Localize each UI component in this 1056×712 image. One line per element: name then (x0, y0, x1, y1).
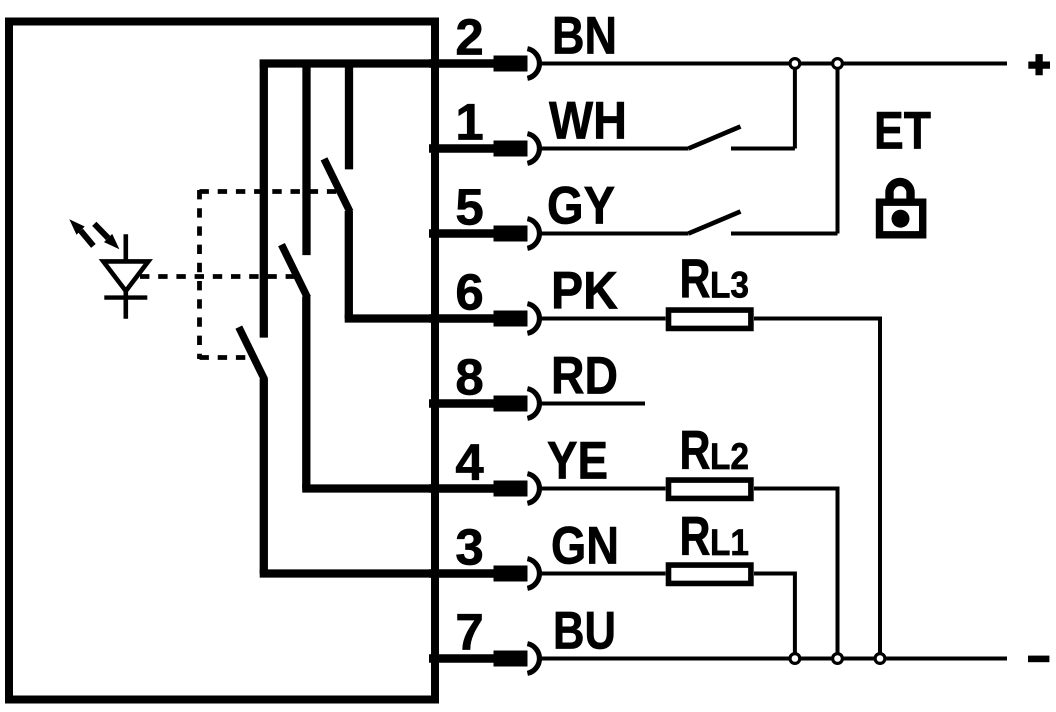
internal bus vertical C (345, 60, 353, 170)
resistor RL2 body (669, 480, 751, 498)
pin 8 plug (494, 396, 528, 412)
internal PK line (345, 314, 431, 322)
svg-text:ET: ET (874, 102, 931, 161)
svg-text:8: 8 (455, 349, 483, 406)
svg-text:3: 3 (455, 519, 483, 576)
svg-text:WH: WH (549, 92, 627, 151)
pin 3 plug (494, 566, 528, 582)
pin 1 plug (494, 141, 528, 157)
pin 4 plug (494, 481, 528, 497)
switch S3 blade (239, 327, 265, 380)
node on BN at GY branch (833, 59, 843, 69)
svg-text:L1: L1 (710, 522, 749, 563)
wire RD line (541, 402, 645, 406)
resistor RL1 body (669, 565, 751, 583)
switch ET2 blade (689, 212, 741, 234)
pin 6 plug (494, 311, 528, 327)
switch S3 lower wire (260, 379, 268, 574)
pin 4 stub (429, 484, 494, 493)
svg-text:BU: BU (553, 602, 616, 661)
dashed link horizontal to switch S3 (200, 355, 251, 360)
LED arrow out (up-left) (69, 219, 93, 246)
pin 6 stub (429, 314, 494, 323)
node on BU at RL3 (875, 654, 885, 664)
wire YE to resistor (541, 487, 666, 491)
switch S1 blade (324, 159, 350, 212)
svg-text:6: 6 (455, 264, 483, 321)
svg-text:7: 7 (455, 604, 483, 661)
svg-text:RD: RD (551, 347, 618, 406)
pin 7 plug (494, 651, 528, 667)
wire vertical WH to BN (793, 64, 797, 149)
pin 5 socket (527, 219, 539, 249)
wire BN line (541, 62, 1007, 66)
wire PK to resistor (541, 317, 666, 321)
switch S2 lower wire (302, 297, 310, 489)
LED D1 cathode bar (104, 295, 147, 299)
internal bus vertical A (260, 60, 268, 338)
pin 6 socket (527, 304, 539, 334)
plus terminal (1028, 54, 1050, 75)
pin 3 stub (429, 569, 494, 578)
dashed link vertical (197, 190, 202, 359)
pin 4 socket (527, 474, 539, 504)
wire GY line left (541, 232, 689, 236)
svg-text:YE: YE (547, 432, 608, 491)
pin 2 plug (494, 56, 528, 72)
wire GN to resistor (541, 572, 666, 576)
switch S1 lower wire (345, 211, 353, 319)
svg-text:1: 1 (455, 94, 483, 151)
internal GN line (260, 569, 431, 577)
svg-text:R: R (680, 249, 711, 310)
pin 1 socket (527, 134, 539, 164)
pin 8 stub (429, 399, 494, 408)
lock icon shackle (890, 182, 911, 200)
LED D1 triangle (103, 261, 148, 291)
wire GY line right (731, 232, 838, 236)
lock icon body (880, 202, 923, 235)
switch S2 blade (282, 245, 308, 298)
LED D1 photodiode lead (124, 234, 129, 319)
wire WH line left (541, 147, 689, 151)
LED arrow in (down-right) (94, 224, 119, 250)
pin 7 stub (429, 654, 494, 663)
wire vertical GY to BN (836, 64, 840, 234)
pin 5 stub (429, 229, 494, 238)
sensor body box (9, 22, 435, 700)
pin 2 socket (527, 49, 539, 79)
pin 1 stub (429, 144, 494, 153)
node on BU at RL1 (790, 654, 800, 664)
svg-text:4: 4 (455, 434, 484, 491)
wire BU line (541, 657, 1007, 661)
pin 7 socket (527, 644, 539, 674)
internal YE line (302, 484, 431, 492)
svg-text:5: 5 (455, 179, 483, 236)
wire RL2 to corner (754, 489, 838, 659)
svg-text:PK: PK (551, 262, 618, 321)
node on BN at WH branch (790, 59, 800, 69)
minus terminal (1028, 656, 1049, 663)
resistor RL3 body (669, 310, 751, 328)
internal BN bus line (260, 59, 431, 67)
svg-text:GY: GY (547, 177, 615, 236)
node on BU at RL2 (833, 654, 843, 664)
pin 3 socket (527, 559, 539, 589)
svg-text:R: R (680, 420, 711, 481)
pin 5 plug (494, 226, 528, 242)
wire RL1 to corner (754, 574, 795, 659)
internal bus vertical B (302, 60, 310, 256)
wire RL3 to corner (754, 319, 880, 659)
pin 2 stub (429, 59, 494, 68)
lock icon keyhole dot (892, 210, 910, 228)
svg-text:L2: L2 (710, 436, 749, 477)
svg-text:BN: BN (552, 7, 617, 66)
switch ET1 blade (689, 127, 741, 149)
wire WH line right (731, 147, 795, 151)
svg-text:GN: GN (551, 517, 619, 576)
svg-text:R: R (680, 506, 711, 567)
pin 8 socket (527, 389, 539, 419)
dashed link horizontal to switch S1 (200, 189, 343, 194)
svg-text:L3: L3 (710, 265, 749, 306)
svg-text:2: 2 (455, 9, 483, 66)
dashed link horizontal from LED to switch S2 (140, 274, 295, 279)
